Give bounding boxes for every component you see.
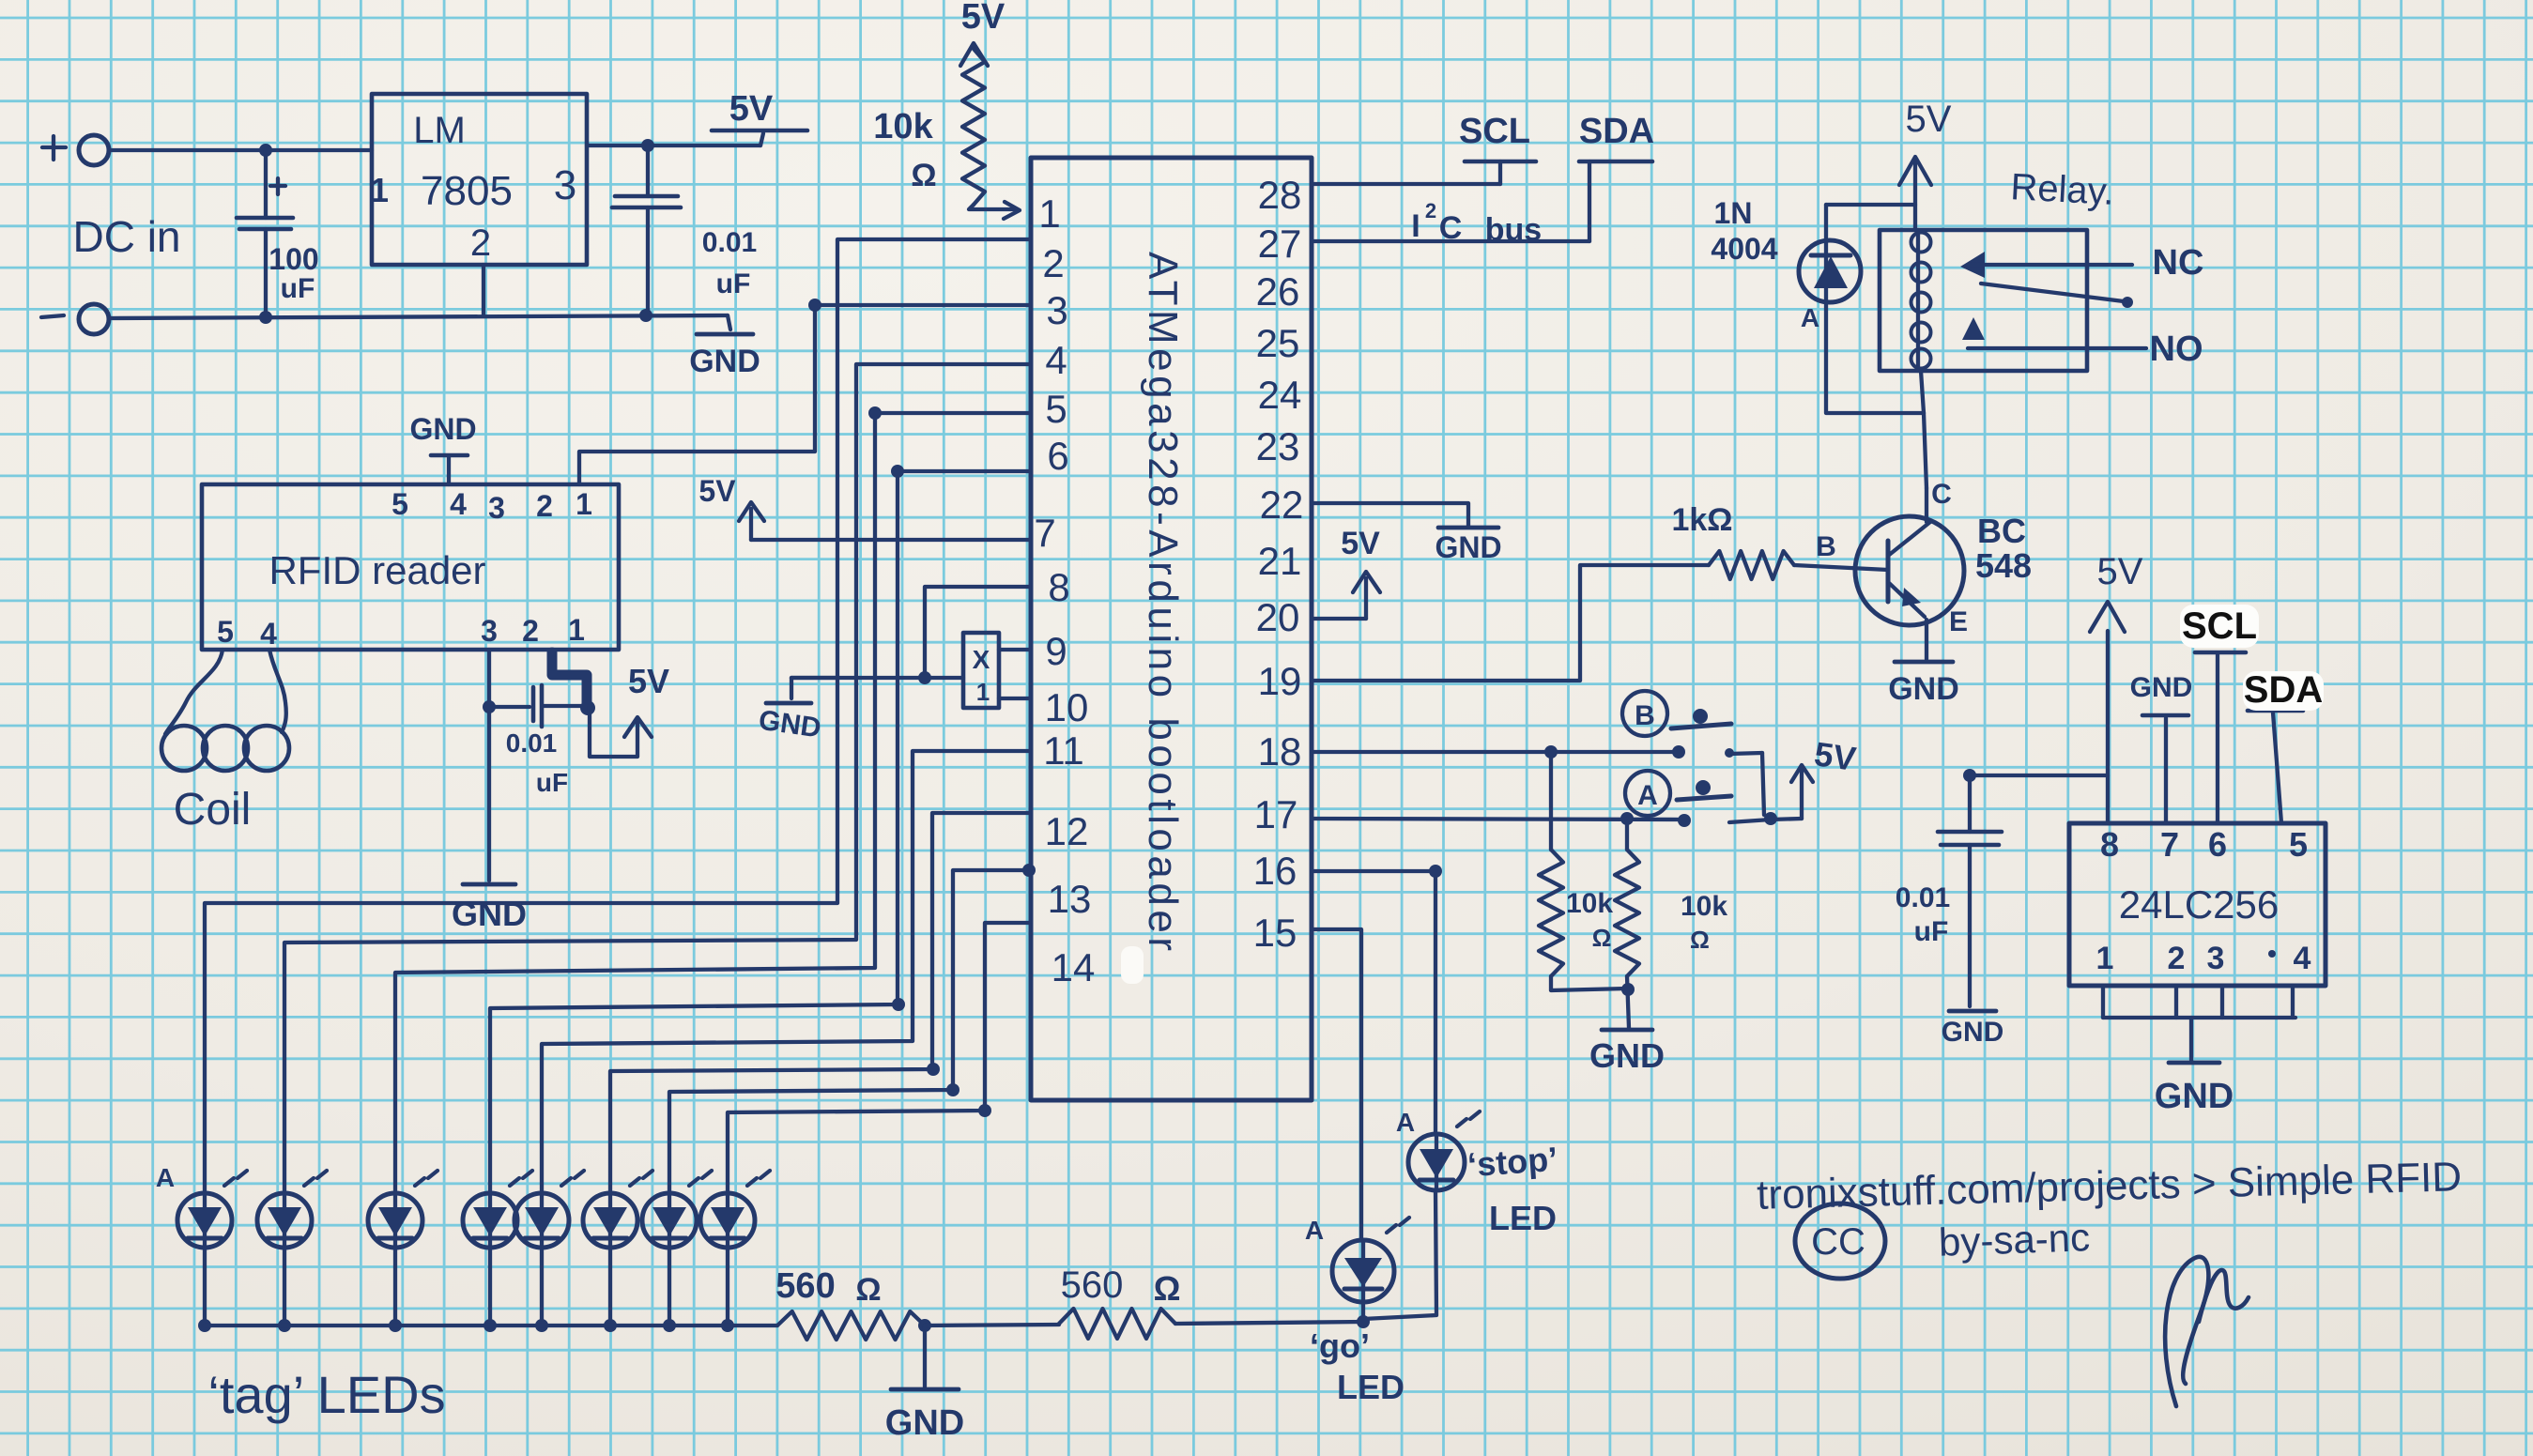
svg-text:GND: GND	[2130, 672, 2193, 703]
svg-text:3: 3	[1046, 288, 1067, 332]
svg-text:24: 24	[1258, 373, 1302, 417]
svg-text:17: 17	[1254, 792, 1298, 836]
svg-text:A: A	[1637, 780, 1658, 811]
svg-text:SDA: SDA	[1579, 112, 1654, 151]
svg-text:uF: uF	[281, 273, 315, 304]
svg-text:8: 8	[2100, 825, 2119, 864]
svg-text:RFID reader: RFID reader	[269, 548, 485, 592]
svg-text:Coil: Coil	[174, 785, 252, 835]
svg-text:DC in: DC in	[72, 212, 180, 261]
svg-text:1kΩ: 1kΩ	[1671, 502, 1732, 538]
svg-text:560: 560	[775, 1266, 835, 1306]
svg-text:7: 7	[1034, 511, 1055, 555]
svg-text:16: 16	[1253, 849, 1297, 893]
svg-text:4004: 4004	[1711, 232, 1777, 266]
svg-text:3: 3	[488, 491, 505, 525]
svg-text:5V: 5V	[698, 474, 736, 508]
svg-text:20: 20	[1256, 595, 1300, 639]
svg-text:6: 6	[1047, 434, 1068, 478]
svg-text:C: C	[1439, 210, 1463, 246]
svg-text:GND: GND	[885, 1403, 964, 1443]
svg-text:560: 560	[1061, 1264, 1124, 1306]
svg-text:ATMega328-Arduino bootloader: ATMega328-Arduino bootloader	[1140, 252, 1186, 951]
svg-text:5: 5	[391, 487, 408, 521]
svg-text:10k: 10k	[873, 107, 933, 146]
svg-text:1N: 1N	[1714, 196, 1753, 230]
svg-text:1: 1	[976, 678, 990, 706]
svg-text:bus: bus	[1485, 212, 1542, 248]
svg-text:5V: 5V	[729, 89, 774, 129]
svg-text:A: A	[1801, 303, 1819, 332]
svg-text:X: X	[973, 645, 990, 674]
svg-text:1: 1	[370, 171, 389, 209]
svg-text:10: 10	[1045, 685, 1089, 729]
svg-text:B: B	[1635, 700, 1655, 731]
svg-text:E: E	[1949, 606, 1968, 637]
svg-text:5V: 5V	[961, 0, 1006, 37]
svg-text:5: 5	[1045, 387, 1067, 431]
svg-text:5V: 5V	[2097, 551, 2143, 592]
svg-text:1: 1	[568, 613, 585, 647]
svg-text:1: 1	[1038, 192, 1060, 236]
svg-text:GND: GND	[1888, 671, 1959, 707]
svg-text:GND: GND	[1435, 530, 1501, 564]
svg-text:SCL: SCL	[2182, 605, 2257, 647]
svg-text:3: 3	[481, 614, 498, 648]
svg-text:Ω: Ω	[1154, 1269, 1181, 1308]
svg-text:0.01: 0.01	[702, 227, 757, 258]
svg-text:‘tag’ LEDs: ‘tag’ LEDs	[207, 1365, 445, 1424]
svg-text:12: 12	[1045, 809, 1089, 853]
svg-text:26: 26	[1256, 269, 1300, 314]
svg-text:18: 18	[1258, 729, 1302, 774]
svg-text:uF: uF	[536, 768, 568, 797]
svg-text:2: 2	[470, 222, 491, 264]
svg-text:GND: GND	[409, 412, 476, 446]
svg-text:NO: NO	[2150, 330, 2203, 369]
svg-text:GND: GND	[1942, 1017, 2004, 1048]
svg-text:5V: 5V	[1906, 99, 1952, 140]
svg-text:4: 4	[260, 617, 277, 651]
svg-text:Ω: Ω	[911, 158, 936, 193]
svg-text:28: 28	[1258, 173, 1302, 217]
svg-text:5: 5	[217, 615, 234, 649]
svg-text:‘stop’: ‘stop’	[1466, 1140, 1559, 1185]
svg-text:Ω: Ω	[1690, 926, 1710, 954]
svg-text:0.01: 0.01	[506, 728, 558, 758]
svg-text:B: B	[1816, 531, 1836, 562]
svg-text:8: 8	[1048, 565, 1069, 609]
svg-text:uF: uF	[1914, 916, 1949, 947]
svg-text:SCL: SCL	[1459, 112, 1530, 151]
svg-text:Ω: Ω	[1592, 924, 1612, 952]
svg-text:2: 2	[1425, 199, 1436, 222]
svg-text:7805: 7805	[421, 168, 513, 214]
svg-text:A: A	[156, 1163, 175, 1192]
svg-text:14: 14	[1052, 945, 1096, 989]
svg-text:C: C	[1931, 479, 1952, 510]
svg-text:5V: 5V	[628, 662, 669, 700]
svg-text:2: 2	[2168, 941, 2186, 976]
svg-text:24LC256: 24LC256	[2119, 882, 2279, 927]
svg-text:19: 19	[1258, 659, 1302, 703]
svg-text:5: 5	[2289, 825, 2308, 864]
svg-text:13: 13	[1048, 877, 1092, 921]
svg-text:10k: 10k	[1566, 888, 1613, 919]
svg-text:LED: LED	[1337, 1368, 1405, 1406]
svg-text:11: 11	[1043, 728, 1084, 773]
svg-text:4: 4	[450, 487, 467, 521]
svg-text:5V: 5V	[1341, 526, 1380, 561]
svg-text:10k: 10k	[1681, 891, 1727, 922]
svg-text:GND: GND	[452, 895, 527, 933]
svg-text:GND: GND	[689, 344, 760, 379]
svg-text:LED: LED	[1489, 1199, 1557, 1237]
svg-text:3: 3	[554, 162, 576, 208]
svg-text:A: A	[1396, 1108, 1415, 1137]
svg-text:NC: NC	[2153, 243, 2204, 283]
svg-text:548: 548	[1975, 546, 2032, 585]
svg-text:21: 21	[1258, 539, 1302, 583]
svg-text:uF: uF	[716, 268, 751, 299]
svg-text:LM: LM	[413, 110, 466, 151]
svg-text:22: 22	[1260, 483, 1304, 527]
svg-text:100: 100	[269, 242, 318, 276]
svg-text:2: 2	[1042, 241, 1064, 285]
svg-text:CC: CC	[1811, 1221, 1865, 1263]
svg-text:A: A	[1305, 1216, 1324, 1245]
svg-text:I: I	[1411, 208, 1420, 244]
svg-text:BC: BC	[1977, 512, 2026, 550]
svg-text:by-sa-nc: by-sa-nc	[1938, 1215, 2091, 1264]
svg-text:6: 6	[2208, 825, 2227, 864]
svg-text:25: 25	[1256, 321, 1300, 365]
svg-text:4: 4	[1045, 338, 1067, 382]
svg-text:27: 27	[1258, 222, 1302, 266]
svg-text:5V: 5V	[1812, 734, 1858, 778]
svg-text:1: 1	[576, 487, 592, 521]
svg-text:1: 1	[2096, 941, 2114, 976]
svg-text:Relay.: Relay.	[2009, 166, 2115, 213]
svg-text:0.01: 0.01	[1896, 882, 1950, 913]
svg-text:23: 23	[1256, 424, 1300, 468]
svg-text:Ω: Ω	[855, 1272, 881, 1308]
svg-text:9: 9	[1045, 629, 1067, 673]
svg-text:GND: GND	[2155, 1077, 2234, 1116]
svg-text:SDA: SDA	[2244, 669, 2323, 711]
svg-text:‘go’: ‘go’	[1310, 1326, 1370, 1365]
svg-text:4: 4	[2294, 941, 2311, 976]
svg-text:2: 2	[522, 614, 539, 648]
svg-text:7: 7	[2160, 825, 2179, 864]
svg-text:3: 3	[2207, 941, 2225, 976]
svg-text:GND: GND	[1589, 1036, 1665, 1075]
svg-text:2: 2	[536, 489, 553, 523]
svg-text:15: 15	[1253, 911, 1297, 955]
